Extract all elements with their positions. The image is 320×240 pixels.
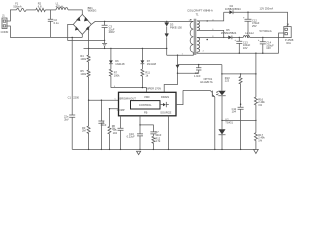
wire J1 live bbox=[7, 10, 17, 21]
svg-text:CONTROL: CONTROL bbox=[139, 103, 152, 107]
svg-text:400V: 400V bbox=[109, 30, 115, 34]
diode D6 bbox=[109, 48, 125, 69]
svg-text:VDD: VDD bbox=[144, 95, 150, 99]
capacitor C4 bbox=[98, 100, 106, 150]
svg-text:1N4148: 1N4148 bbox=[147, 62, 157, 66]
opto light arrows bbox=[216, 91, 219, 95]
opto LED bbox=[218, 65, 225, 130]
svg-text:0.22uF: 0.22uF bbox=[127, 135, 135, 139]
node secondary ground junctions bbox=[239, 53, 240, 54]
svg-text:SOURCE: SOURCE bbox=[160, 110, 171, 114]
fuse F1 bbox=[13, 2, 26, 12]
capacitor C5 bbox=[113, 116, 124, 150]
svg-text:2M: 2M bbox=[82, 129, 86, 133]
capacitor C12 bbox=[243, 12, 260, 37]
capacitor C7 bbox=[127, 116, 162, 150]
mosfet symbol bbox=[160, 102, 169, 107]
svg-text:2200: 2200 bbox=[73, 95, 79, 99]
capacitor C13 bbox=[234, 37, 250, 53]
transient suppressor D3 bbox=[165, 21, 183, 33]
svg-text:R/A: R/A bbox=[287, 41, 292, 45]
svg-text:COILCRAFT Y8848-A: COILCRAFT Y8848-A bbox=[187, 9, 213, 13]
svg-text:C1: C1 bbox=[68, 95, 72, 99]
svg-text:2kV: 2kV bbox=[64, 117, 69, 121]
wire live to bridge bbox=[68, 10, 82, 15]
inductor L1 bbox=[56, 2, 68, 10]
svg-text:33nF: 33nF bbox=[155, 133, 161, 137]
svg-text:W005G: W005G bbox=[88, 9, 97, 13]
capacitor C6 snubber bbox=[178, 64, 202, 78]
svg-text:10V: 10V bbox=[243, 46, 248, 50]
svg-text:223: 223 bbox=[225, 79, 230, 83]
svg-text:1.0nF: 1.0nF bbox=[194, 74, 201, 78]
wire drain pin bbox=[176, 90, 183, 104]
opto transistor bbox=[183, 90, 215, 149]
diode D7 bbox=[141, 48, 157, 69]
wire bbox=[88, 62, 90, 70]
wire bottom rail bbox=[72, 148, 256, 150]
inductor L2 bbox=[243, 31, 253, 38]
svg-text:1N5822/5824: 1N5822/5824 bbox=[225, 7, 241, 11]
bridge rectifier BR1 bbox=[73, 6, 96, 35]
transformer T1 bbox=[187, 9, 213, 17]
capacitor C11 bbox=[232, 104, 244, 150]
resistor R6 bbox=[108, 108, 119, 149]
svg-text:10V: 10V bbox=[266, 46, 271, 50]
resistor R13 bbox=[225, 74, 242, 107]
resistor R8 bbox=[141, 69, 151, 87]
svg-text:25V: 25V bbox=[252, 24, 257, 28]
wire bridge DC minus bbox=[68, 24, 105, 40]
wire return rail bbox=[84, 47, 167, 49]
wire neutral to bridge bottom bbox=[81, 34, 83, 37]
svg-text:4.7k: 4.7k bbox=[155, 139, 161, 143]
wire ground to J4 bbox=[279, 33, 284, 53]
capacitor C14 bbox=[258, 37, 274, 53]
svg-text:FB: FB bbox=[144, 110, 148, 114]
svg-text:0.1u: 0.1u bbox=[54, 21, 60, 25]
svg-text:6.8: 6.8 bbox=[38, 4, 42, 8]
connector J1 bbox=[1, 14, 9, 34]
diode D5 bbox=[221, 28, 237, 40]
wire J1 neutral bbox=[7, 26, 82, 37]
resistor R17 bbox=[254, 133, 265, 150]
control block bbox=[131, 101, 161, 109]
T1 secondary 12V winding bbox=[197, 19, 214, 31]
connector J4 bbox=[284, 23, 294, 45]
wire brown-out bbox=[89, 77, 119, 100]
svg-text:100k: 100k bbox=[80, 57, 86, 61]
resistor R12 source bbox=[168, 116, 170, 150]
resistor R3 bbox=[82, 100, 90, 149]
wire 12V rail bbox=[224, 12, 288, 26]
wire tap return bbox=[197, 52, 279, 53]
svg-text:H11A817A: H11A817A bbox=[200, 80, 213, 84]
svg-text:1N4148: 1N4148 bbox=[115, 62, 125, 66]
resistor R2 bbox=[36, 2, 46, 12]
node return rail junctions bbox=[88, 48, 89, 49]
resistor R5 bbox=[80, 69, 90, 77]
T1 secondary 5V winding bbox=[197, 36, 214, 53]
svg-text:TS431: TS431 bbox=[225, 120, 233, 124]
svg-text:470uH: 470uH bbox=[56, 4, 64, 8]
shunt regulator U2 TS431 bbox=[219, 118, 234, 150]
svg-text:12V 250mA: 12V 250mA bbox=[260, 7, 274, 11]
wire bridge DC plus rail bbox=[91, 21, 193, 24]
svg-text:104: 104 bbox=[113, 131, 118, 135]
op-amp U1 controller bbox=[117, 87, 176, 116]
ground secondary bbox=[254, 149, 259, 153]
T1 primary winding bbox=[182, 19, 194, 55]
resistor R7 bbox=[109, 69, 120, 87]
wire 5V rail bbox=[232, 36, 284, 38]
svg-text:100k: 100k bbox=[80, 72, 86, 76]
capacitor C1 bbox=[64, 37, 80, 150]
diode D4 bbox=[225, 4, 241, 14]
optocoupler U2 labels bbox=[200, 77, 213, 84]
svg-text:5V 500mA: 5V 500mA bbox=[260, 29, 272, 33]
capacitor C3 bbox=[102, 21, 115, 48]
svg-text:P6KE-150: P6KE-150 bbox=[170, 25, 182, 29]
wire TL431 ref bbox=[222, 119, 256, 121]
svg-text:DRAIN: DRAIN bbox=[161, 95, 169, 99]
wire bbox=[45, 9, 56, 11]
wire tap 5V bbox=[197, 36, 228, 38]
ground primary rail bbox=[137, 151, 141, 154]
wire drain drop bbox=[164, 55, 179, 92]
svg-text:VIPER 170N: VIPER 170N bbox=[146, 87, 161, 91]
svg-text:500mA: 500mA bbox=[13, 4, 21, 8]
wire bbox=[26, 9, 36, 11]
svg-text:104: 104 bbox=[232, 110, 237, 114]
wire tap 12V bbox=[197, 12, 224, 21]
wire LED anode bbox=[178, 64, 222, 66]
wire feedback bus bbox=[222, 73, 256, 75]
svg-text:100k: 100k bbox=[114, 74, 120, 78]
node DC+ junctions bbox=[104, 21, 105, 22]
resistor R4 bbox=[80, 27, 90, 62]
node bottom rail junctions bbox=[88, 149, 89, 150]
svg-text:BROWN-OUT: BROWN-OUT bbox=[120, 97, 137, 101]
wire primary bottom bbox=[167, 52, 194, 55]
wire VDD bbox=[111, 88, 146, 93]
svg-text:1N5822/5824: 1N5822/5824 bbox=[221, 31, 237, 35]
svg-text:CONN: CONN bbox=[1, 30, 9, 34]
wire tap mid bbox=[197, 30, 224, 37]
svg-text:10nF: 10nF bbox=[100, 123, 106, 127]
T1 core bbox=[194, 19, 196, 55]
capacitor C2 bbox=[48, 10, 59, 38]
resistor R16 bbox=[254, 53, 265, 133]
svg-text:L2 1uH: L2 1uH bbox=[245, 31, 253, 35]
diode D2 blocking bbox=[165, 34, 169, 56]
